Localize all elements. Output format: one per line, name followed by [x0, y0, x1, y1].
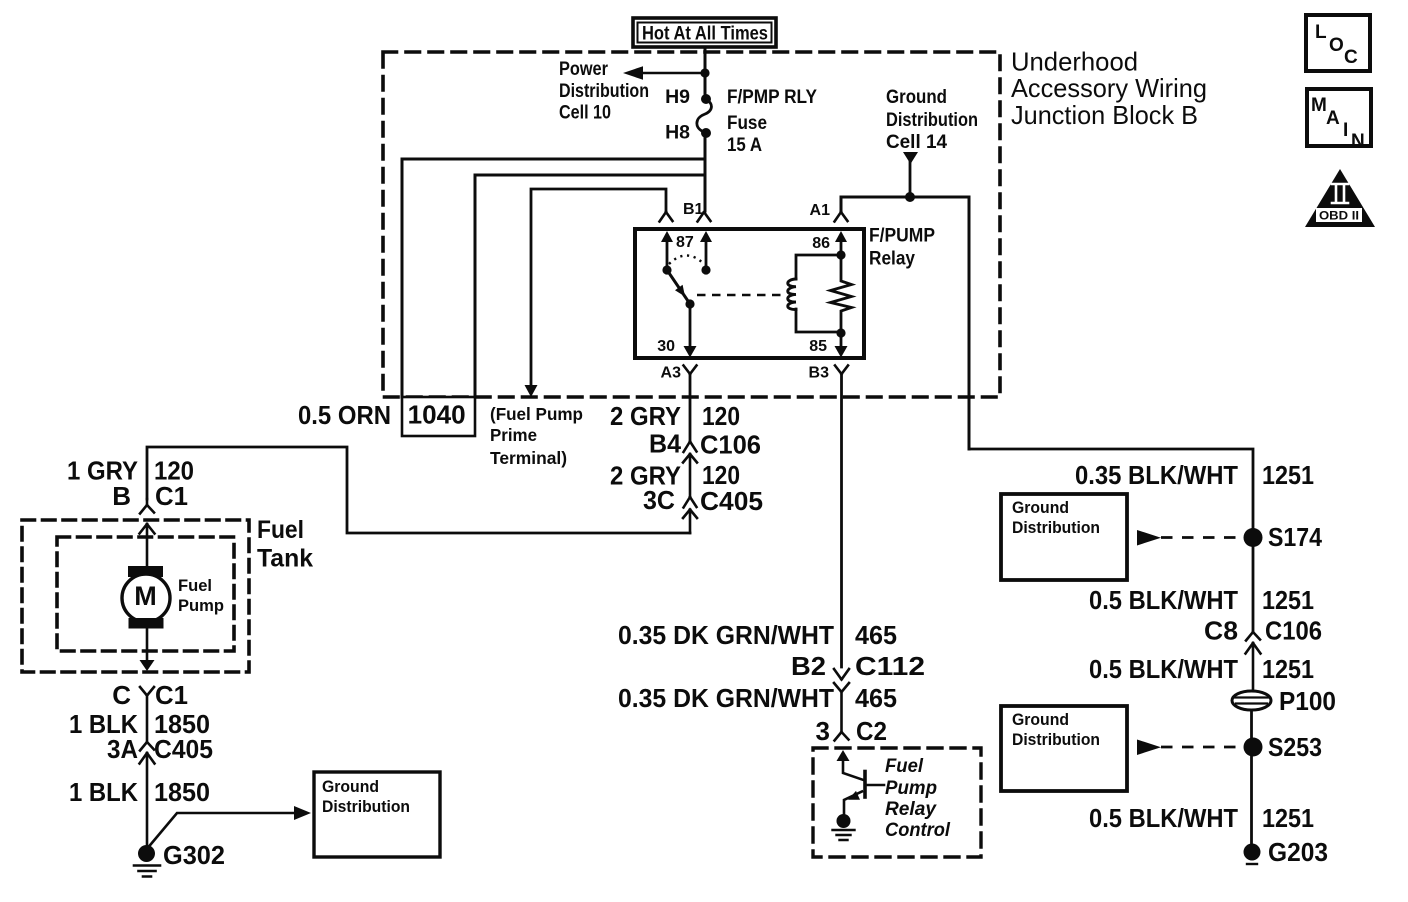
node: junction on A1 wire [905, 192, 915, 202]
svg-text:Fuel: Fuel [257, 516, 304, 544]
fuse F/PMP RLY 15A symbol [701, 94, 711, 138]
svg-text:Relay: Relay [885, 799, 937, 820]
connector A3 fork [684, 366, 697, 375]
svg-text:Distribution: Distribution [1012, 730, 1100, 749]
svg-text:M: M [1311, 95, 1327, 116]
fuel pump motor M1 [122, 566, 170, 629]
svg-text:I: I [1343, 120, 1348, 141]
svg-text:C106: C106 [1265, 616, 1322, 646]
connector B2/C112 arrow and fork [834, 669, 849, 732]
nodes: coil junction dots [836, 250, 845, 337]
OBD II triangle emblem [1305, 169, 1375, 227]
svg-text:0.5 BLK/WHT: 0.5 BLK/WHT [1089, 654, 1238, 684]
svg-text:C106: C106 [700, 430, 761, 460]
transistor emitter ground node and ground symbol [837, 814, 851, 828]
connector B1 fork left [660, 212, 673, 222]
svg-text:G302: G302 [163, 840, 225, 870]
connector C8/C106 fork and arrow [1246, 632, 1261, 691]
connector C/C1 fork [140, 687, 154, 740]
svg-text:A3: A3 [661, 365, 682, 382]
relay pin 87 arrows [661, 231, 712, 270]
splice node S253 [1244, 738, 1263, 757]
wire: pump feed run to fuel tank [147, 447, 690, 533]
svg-text:S174: S174 [1268, 522, 1322, 552]
connector B1 fork right [698, 212, 711, 222]
svg-text:0.5 BLK/WHT: 0.5 BLK/WHT [1089, 585, 1238, 615]
svg-text:Fuel: Fuel [885, 756, 924, 777]
svg-text:F/PMP RLY: F/PMP RLY [727, 86, 817, 108]
node: junction dot to power distribution [700, 68, 709, 77]
wire: relay contact to pin 30 [684, 304, 697, 358]
wire: motor to ground with exit arrow [140, 629, 155, 672]
connector B/C1 fork and arrow [140, 499, 155, 566]
wire: below P100 to G203 [1250, 710, 1253, 844]
wire: ground distribution run (right side) [969, 449, 1253, 630]
svg-text:1 BLK: 1 BLK [69, 777, 138, 807]
svg-text:1040: 1040 [408, 400, 466, 430]
svg-text:Pump: Pump [885, 778, 937, 799]
svg-text:Fuel: Fuel [178, 577, 212, 595]
svg-text:0.5 ORN: 0.5 ORN [298, 400, 391, 430]
svg-text:B2: B2 [791, 651, 826, 681]
ground G302 node and ground symbol [138, 845, 155, 862]
ground distribution reference box (lower right) [1001, 706, 1127, 791]
svg-text:Pump: Pump [178, 597, 224, 615]
svg-text:A: A [1326, 108, 1340, 129]
wire: fuse branch to 1040 (0.5 ORN) [402, 159, 705, 397]
svg-text:B1: B1 [683, 201, 704, 218]
svg-text:Distribution: Distribution [559, 80, 649, 102]
ground G203 node [1244, 844, 1261, 861]
svg-text:Ground: Ground [886, 86, 947, 108]
wire: second branch to 1040 box [475, 175, 704, 397]
svg-text:0.5 BLK/WHT: 0.5 BLK/WHT [1089, 803, 1238, 833]
svg-text:C1: C1 [155, 481, 188, 511]
connector B4/C106 fork and arrow [683, 442, 697, 498]
svg-text:0.35 DK GRN/WHT: 0.35 DK GRN/WHT [618, 683, 834, 713]
relay switch contacts [662, 265, 710, 308]
svg-text:Relay: Relay [869, 249, 915, 270]
svg-text:B4: B4 [649, 429, 682, 459]
svg-text:Cell 14: Cell 14 [886, 131, 947, 153]
connector B3 fork [835, 366, 848, 375]
connector 3C/C405 fork and arrow [683, 497, 697, 533]
svg-text:1251: 1251 [1262, 460, 1314, 490]
svg-text:S253: S253 [1268, 732, 1322, 762]
svg-text:Prime: Prime [490, 425, 537, 445]
relay switch dotted rest-position arc [669, 256, 704, 265]
wire: fuel pump prime terminal feed [525, 189, 667, 397]
wire: ground distribution cell 14 drop with arrow [903, 152, 918, 197]
svg-text:Control: Control [885, 820, 951, 841]
svg-text:2 GRY: 2 GRY [610, 401, 681, 431]
svg-text:Distribution: Distribution [1012, 518, 1100, 537]
svg-text:1251: 1251 [1262, 803, 1314, 833]
grommet P100 [1232, 691, 1271, 710]
svg-text:C112: C112 [855, 651, 925, 681]
svg-text:M: M [134, 581, 157, 611]
svg-text:O: O [1329, 35, 1344, 56]
svg-text:N: N [1351, 131, 1365, 152]
wire: A3 down to connector C106 [689, 374, 692, 441]
svg-text:Cell 10: Cell 10 [559, 102, 611, 124]
connector 3/C2 fork [835, 732, 849, 741]
svg-text:C: C [112, 680, 131, 710]
ground distribution reference box (left) [314, 772, 440, 857]
svg-text:C: C [1344, 47, 1358, 68]
svg-text:C1: C1 [155, 680, 188, 710]
wire: relay B3 control wire down to PCM [840, 374, 843, 667]
relay F/PUMP box [635, 229, 864, 358]
svg-text:Hot At All Times: Hot At All Times [642, 24, 768, 45]
svg-text:Ground: Ground [322, 777, 379, 796]
svg-text:Tank: Tank [257, 545, 313, 573]
svg-text:30: 30 [657, 338, 675, 355]
svg-text:Power: Power [559, 58, 608, 80]
svg-text:Accessory Wiring: Accessory Wiring [1011, 73, 1207, 103]
svg-text:B: B [112, 481, 131, 511]
wire: relay A1 to ground distribution path [841, 197, 969, 449]
svg-text:Underhood: Underhood [1011, 47, 1138, 77]
svg-text:A1: A1 [810, 202, 831, 219]
svg-text:P100: P100 [1279, 686, 1336, 716]
svg-text:1850: 1850 [154, 777, 210, 807]
svg-text:L: L [1315, 22, 1327, 43]
PCM dashed box [813, 748, 981, 857]
svg-text:120: 120 [702, 401, 740, 431]
fuel tank outer dashed box [22, 520, 249, 672]
svg-text:(Fuel Pump: (Fuel Pump [490, 404, 583, 424]
wire: coil to pin 85 [835, 333, 848, 358]
wire ID box 1040 [402, 397, 475, 436]
svg-text:465: 465 [855, 683, 897, 713]
svg-text:15 A: 15 A [727, 134, 762, 156]
svg-text:Fuse: Fuse [727, 112, 767, 134]
junction block B dashed border [383, 52, 1000, 397]
MAIN legend box [1307, 89, 1371, 146]
svg-text:H9: H9 [665, 86, 690, 108]
svg-text:C2: C2 [856, 716, 887, 746]
svg-text:85: 85 [809, 338, 827, 355]
svg-text:3: 3 [816, 716, 830, 746]
svg-text:0.35 DK GRN/WHT: 0.35 DK GRN/WHT [618, 620, 834, 650]
svg-text:Terminal): Terminal) [490, 448, 567, 468]
svg-text:Ground: Ground [1012, 710, 1069, 729]
svg-text:C405: C405 [700, 486, 763, 516]
svg-text:3A: 3A [107, 734, 138, 764]
relay coil suppression resistor [831, 255, 852, 333]
fuel tank inner dashed box [57, 537, 234, 651]
svg-text:Ground: Ground [1012, 498, 1069, 517]
svg-text:F/PUMP: F/PUMP [869, 226, 935, 247]
relay coil [788, 255, 841, 332]
svg-text:H8: H8 [665, 122, 690, 144]
svg-text:Distribution: Distribution [886, 109, 978, 131]
svg-text:Junction Block B: Junction Block B [1011, 100, 1198, 130]
dashed link with arrow to splice S174 [1137, 530, 1241, 546]
svg-text:OBD II: OBD II [1319, 211, 1359, 223]
svg-text:465: 465 [855, 620, 897, 650]
wire: hot feed from Hot At All Times down to relay B1 [704, 47, 707, 211]
ground distribution reference box (upper right) [1001, 494, 1127, 580]
svg-text:0.35 BLK/WHT: 0.35 BLK/WHT [1075, 460, 1238, 490]
Hot At All Times box [633, 18, 776, 47]
relay switch blade with arrowhead [667, 270, 688, 301]
transistor Q1 fuel pump relay control driver [837, 750, 885, 816]
svg-text:86: 86 [812, 235, 830, 252]
wire: branch to ground distribution with arrow [149, 806, 312, 847]
svg-text:3C: 3C [643, 485, 675, 515]
svg-text:C8: C8 [1204, 616, 1238, 646]
svg-text:Distribution: Distribution [322, 797, 410, 816]
relay pin 86 arrow [835, 231, 847, 255]
connector A1 fork [835, 212, 848, 222]
svg-text:1251: 1251 [1262, 654, 1314, 684]
wire: branch to Power Distribution Cell 10 with arrow [623, 66, 705, 80]
svg-text:B3: B3 [809, 365, 830, 382]
LOC legend box [1306, 15, 1370, 71]
svg-text:87: 87 [676, 234, 694, 251]
connector 3A/C405 fork and arrow [140, 742, 155, 847]
splice node S174 [1244, 528, 1263, 547]
relay armature link dashed [697, 294, 783, 297]
svg-text:G203: G203 [1268, 837, 1328, 867]
svg-text:1251: 1251 [1262, 585, 1314, 615]
svg-text:C405: C405 [154, 734, 213, 764]
dashed link with arrow to splice S253 [1137, 740, 1241, 756]
